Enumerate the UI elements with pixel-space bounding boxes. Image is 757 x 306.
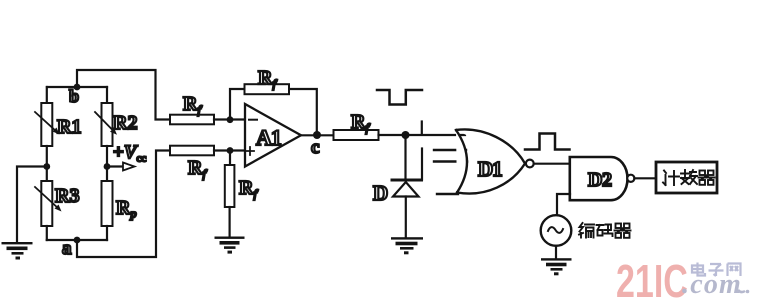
pulse waveform positive <box>525 134 570 150</box>
resistor R2 <box>102 103 113 146</box>
wire Rp bottom lead <box>106 226 108 240</box>
器 <box>615 224 631 238</box>
svg-text:R2: R2 <box>113 112 137 134</box>
resistor Rf feedback <box>245 84 290 94</box>
svg-text:A1: A1 <box>256 125 281 150</box>
wire bottom Rf to plus input <box>214 149 245 151</box>
AC source encoder <box>541 215 572 246</box>
resistor Rf grounded <box>225 165 235 207</box>
ground encoder <box>541 258 572 275</box>
wire source to ground <box>555 246 557 258</box>
resistor Rf output <box>334 130 379 140</box>
zener diode D <box>392 179 422 182</box>
电 <box>692 263 705 276</box>
node left mid <box>43 163 50 170</box>
wire node a to op-amp lower input <box>77 151 170 258</box>
wire D2 output <box>634 177 656 179</box>
pulse waveform negative <box>377 90 422 105</box>
数 <box>681 170 697 184</box>
ground bridge <box>2 242 33 260</box>
码 <box>597 225 613 237</box>
wire left column top lead <box>46 87 48 103</box>
op-amp A1 <box>245 104 301 167</box>
counter box 计数器 <box>656 162 717 193</box>
wire zener right riser <box>421 149 423 180</box>
node junction <box>402 131 410 139</box>
ground zener <box>391 237 423 254</box>
node minus input <box>227 116 234 123</box>
svg-text:D2: D2 <box>588 169 612 191</box>
wire bridge top rail <box>47 86 107 88</box>
子 <box>709 264 724 276</box>
svg-text:a: a <box>62 238 72 259</box>
NOR gate D1 <box>434 129 534 194</box>
wire right column top lead <box>106 87 108 103</box>
svg-text:.com: .com <box>682 269 742 300</box>
wire R2 to mid junction <box>106 146 108 181</box>
wire Rf to junction and D1 top input <box>379 134 466 136</box>
wire op-amp output to node c <box>301 134 334 136</box>
wire top Rf to minus input <box>214 118 245 120</box>
svg-text:21IC: 21IC <box>616 255 688 306</box>
svg-text:b: b <box>69 86 79 106</box>
logo 电子网 <box>692 263 741 277</box>
+Vcc arrow <box>107 165 123 167</box>
器 <box>699 171 715 185</box>
wire junction to zener <box>404 135 406 178</box>
logo 21IC <box>616 255 688 306</box>
计 <box>663 171 679 186</box>
wire bridge bottom rail <box>47 239 107 241</box>
wire D1 output to D2 <box>534 163 570 165</box>
NAND gate D2 <box>570 157 628 200</box>
node b <box>74 84 81 91</box>
svg-text:D1: D1 <box>478 157 502 181</box>
wire Rf to ground <box>229 207 231 237</box>
node plus input <box>227 147 234 154</box>
text 计数器 counter label <box>663 170 715 185</box>
resistor Rf input bottom <box>170 146 214 156</box>
wire left mid node to ground <box>17 167 47 243</box>
logo swash <box>738 290 745 292</box>
wire R1 to mid junction <box>46 146 48 181</box>
resistor Rf input top <box>170 115 214 125</box>
编 <box>579 223 594 238</box>
ground op-amp <box>215 237 245 254</box>
node a <box>74 237 81 244</box>
resistor R1 <box>41 103 52 146</box>
node c <box>313 131 321 139</box>
svg-text:D: D <box>373 181 388 205</box>
wire D2 second input <box>557 194 570 215</box>
text 编码器 encoder label <box>579 223 631 238</box>
wire stub above junction wire <box>421 122 423 134</box>
wire feedback loop <box>230 89 317 135</box>
node right mid <box>104 163 111 170</box>
wire bridge top outer loop b to op-amp input <box>77 70 170 120</box>
网 <box>728 264 741 277</box>
wire R3 bottom lead <box>46 226 48 240</box>
wire plus input to grounded Rf <box>229 151 231 166</box>
svg-text:R3: R3 <box>55 185 79 207</box>
svg-text:c: c <box>311 137 319 158</box>
resistor R3 <box>41 181 52 226</box>
svg-text:R1: R1 <box>57 116 81 138</box>
resistor Rp <box>102 181 113 226</box>
